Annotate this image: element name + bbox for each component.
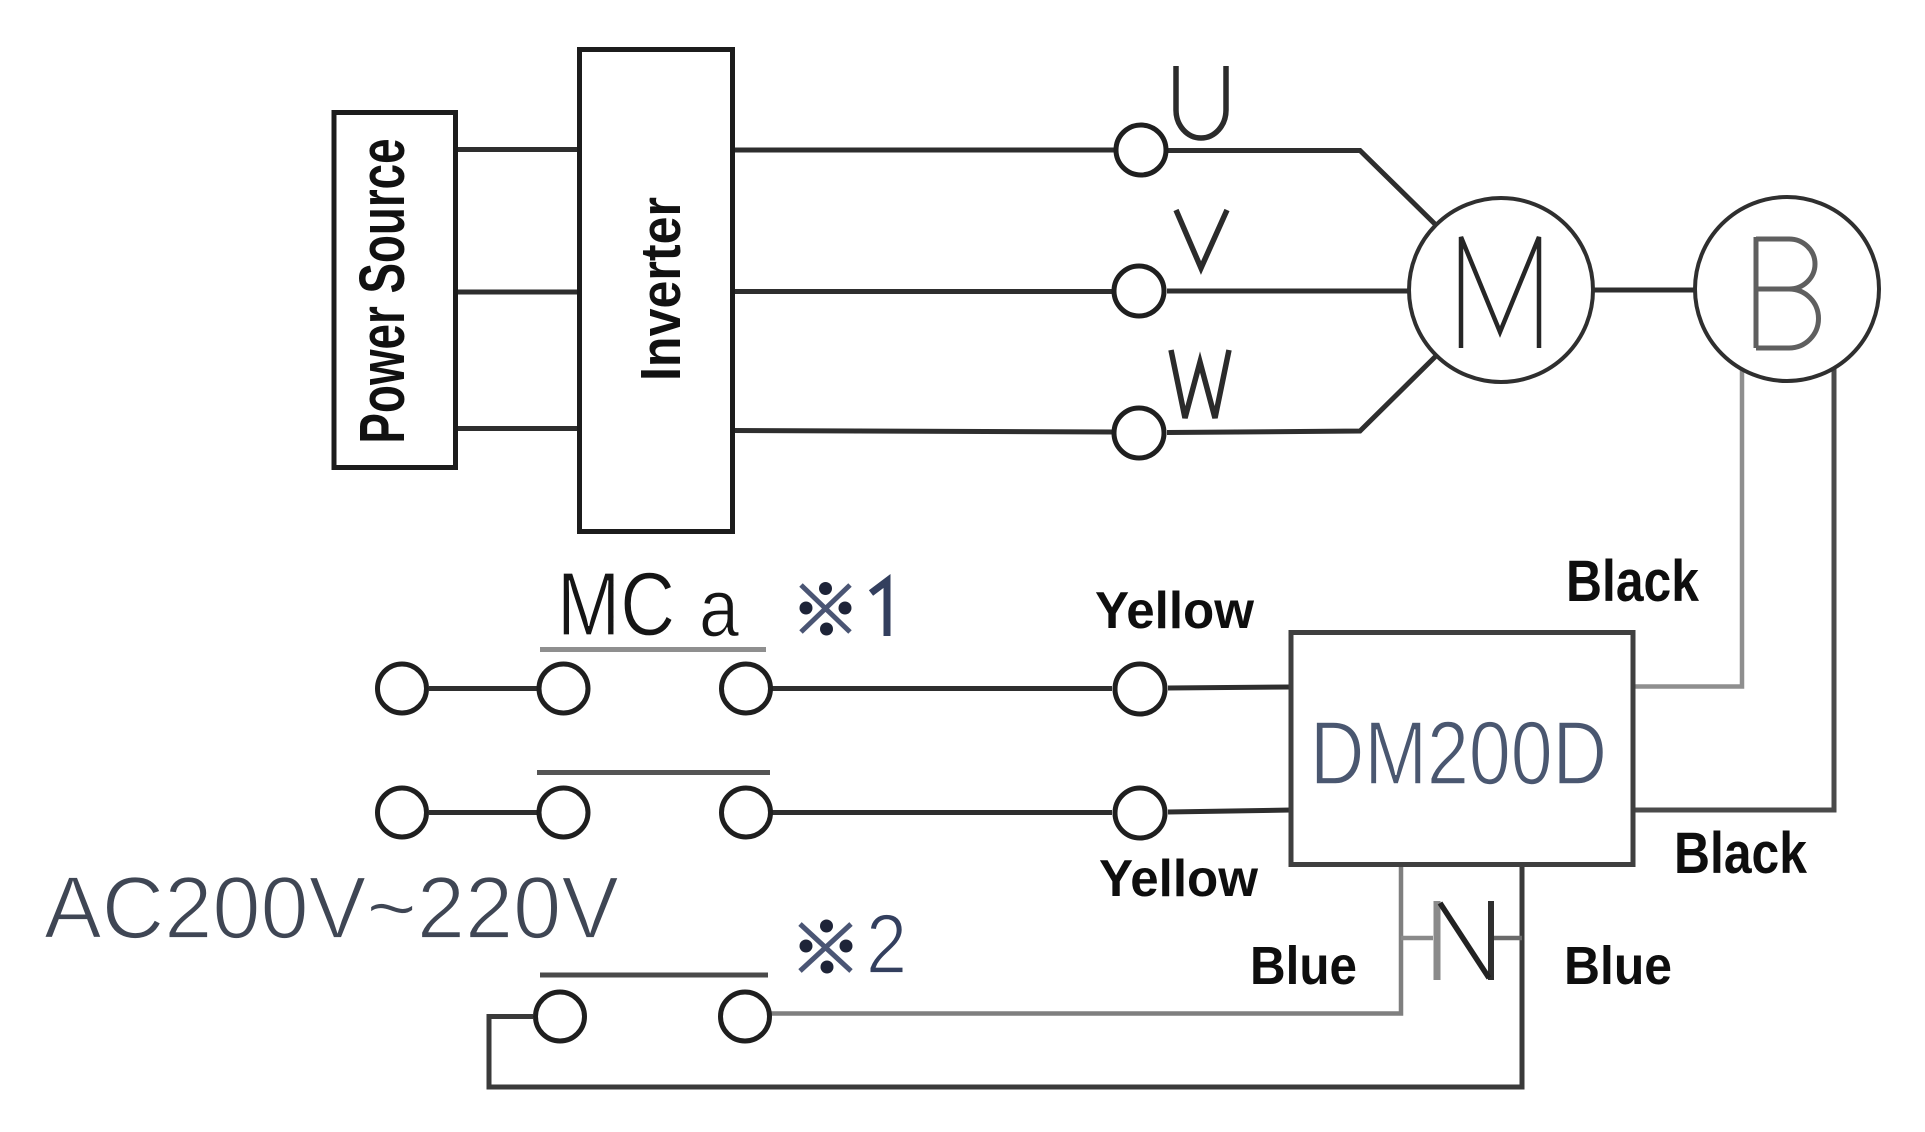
svg-text:Black: Black: [1674, 821, 1808, 886]
svg-text:MC: MC: [557, 555, 675, 655]
svg-text:AC200V~220V: AC200V~220V: [44, 858, 619, 957]
svg-text:Black: Black: [1566, 549, 1700, 614]
svg-text:Blue: Blue: [1250, 936, 1357, 996]
svg-text:Yellow: Yellow: [1099, 850, 1259, 908]
svg-text:Yellow: Yellow: [1095, 582, 1255, 640]
svg-text:Inverter: Inverter: [629, 197, 693, 381]
svg-text:Blue: Blue: [1564, 936, 1672, 996]
svg-text:2: 2: [866, 897, 907, 991]
svg-text:a: a: [699, 563, 739, 654]
svg-text:Power Source: Power Source: [346, 139, 418, 444]
svg-text:DM200D: DM200D: [1310, 704, 1607, 804]
